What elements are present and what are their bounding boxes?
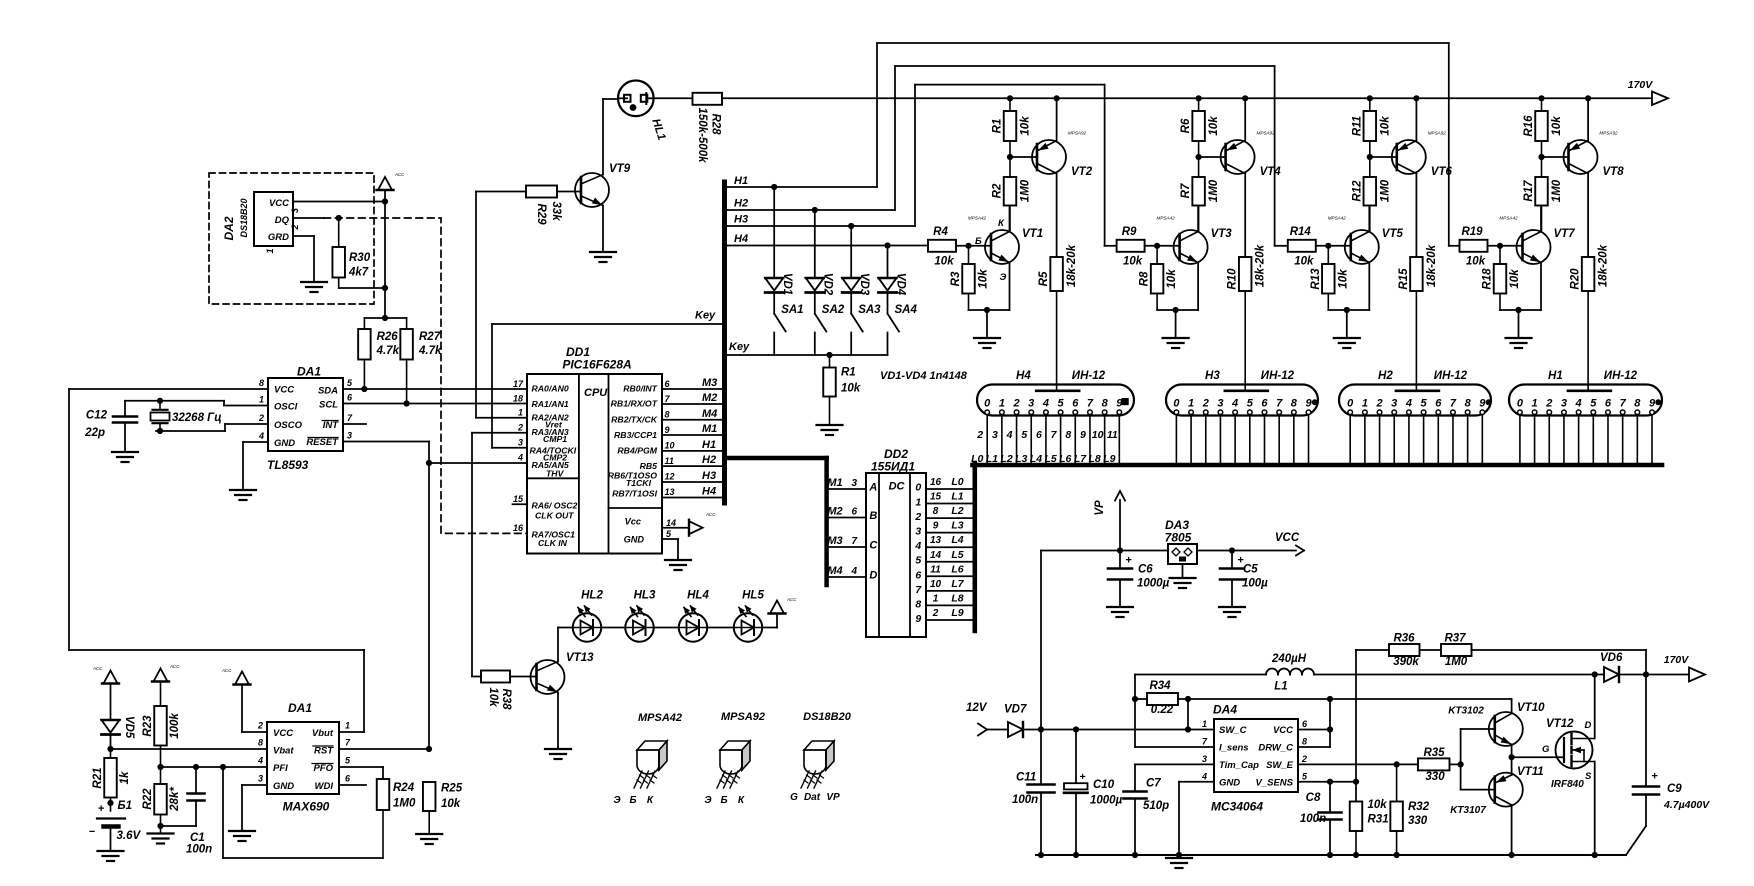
tube H4 cathode net labels L0-L9	[971, 453, 1116, 465]
svg-text:OSCO: OSCO	[274, 420, 303, 431]
svg-text:4.7k: 4.7k	[376, 345, 400, 357]
svg-text:1M0: 1M0	[1379, 179, 1391, 202]
battery-backed VCC rail wire	[69, 389, 364, 732]
junction rail C10	[1073, 852, 1079, 858]
DD1 pin 6 wire M3	[662, 377, 722, 389]
svg-text:+: +	[1125, 555, 1132, 567]
svg-text:2: 2	[976, 429, 983, 441]
svg-text:ACC: ACC	[221, 668, 232, 673]
svg-text:MPSA92: MPSA92	[721, 711, 765, 723]
capacitor C10 1000u electrolytic	[1064, 730, 1123, 856]
resistor R23 100k	[142, 682, 181, 768]
svg-text:18: 18	[513, 394, 523, 404]
svg-text:ИН-12: ИН-12	[1261, 370, 1295, 382]
resistor R9 10k base	[1117, 226, 1180, 268]
junction 12V/C10	[1073, 726, 1079, 732]
junction 170V rail / R11	[1367, 95, 1373, 101]
svg-text:12: 12	[665, 472, 675, 482]
resistor R16 10k	[1523, 98, 1563, 157]
svg-text:H2: H2	[702, 454, 716, 466]
svg-text:R16: R16	[1523, 115, 1535, 137]
nixie tube H2 ИН-12 body	[1339, 370, 1492, 416]
svg-text:4k7: 4k7	[348, 267, 369, 279]
svg-text:14: 14	[666, 518, 676, 528]
svg-text:15: 15	[930, 492, 942, 503]
svg-text:330: 330	[1425, 771, 1445, 783]
Key wire upper to RA4	[492, 309, 722, 447]
svg-text:100µ: 100µ	[1242, 578, 1268, 590]
svg-text:8: 8	[1065, 429, 1071, 441]
svg-text:C7: C7	[1146, 778, 1161, 790]
svg-text:11: 11	[665, 456, 674, 466]
junction emitter ground node	[1344, 307, 1350, 313]
svg-text:8: 8	[915, 599, 921, 611]
svg-text:0: 0	[984, 397, 991, 409]
wire VT12 drain	[1594, 675, 1596, 739]
svg-text:100k: 100k	[169, 713, 181, 739]
svg-text:22p: 22p	[84, 427, 105, 439]
resistor R35 330	[1418, 747, 1461, 783]
wire M4 to DD2 D pin 4	[827, 565, 866, 577]
IC DA1 MAX690 body	[267, 701, 339, 814]
crystal top rail	[125, 400, 224, 402]
svg-text:PFI: PFI	[273, 763, 288, 774]
svg-text:10k: 10k	[1337, 269, 1349, 289]
svg-text:C12: C12	[86, 410, 108, 422]
DD1 pin 9 wire M1	[662, 423, 722, 435]
junction rail VT11 collector	[1509, 852, 1515, 858]
svg-text:5: 5	[1058, 397, 1065, 409]
port bus vertical	[722, 182, 727, 503]
svg-text:1: 1	[259, 395, 264, 405]
svg-text:1000µ: 1000µ	[1090, 795, 1123, 807]
svg-text:8: 8	[933, 506, 939, 517]
svg-text:5: 5	[1421, 397, 1428, 409]
svg-text:ACC: ACC	[786, 597, 797, 602]
svg-text:MPSA92: MPSA92	[1599, 131, 1618, 136]
junction R4/R3	[965, 243, 971, 249]
junction 170V rail / R6	[1196, 95, 1202, 101]
TL8593 pin 4 GND wire	[243, 431, 268, 490]
DD2 output pin 16 wire L0	[926, 476, 973, 489]
svg-text:ACC: ACC	[92, 666, 103, 671]
svg-text:3: 3	[915, 526, 921, 538]
DD2 output pin 2 wire L9	[926, 607, 973, 620]
svg-text:10k: 10k	[1166, 269, 1178, 289]
svg-text:−: −	[89, 826, 96, 838]
tube H1 cathode wires to bus	[1520, 415, 1652, 463]
svg-text:SW_C: SW_C	[1219, 725, 1247, 736]
svg-text:R7: R7	[1180, 183, 1192, 198]
svg-text:Б: Б	[720, 795, 727, 806]
junction rail C7	[1132, 852, 1138, 858]
svg-text:12V: 12V	[966, 702, 988, 714]
svg-text:M2: M2	[827, 506, 842, 518]
DD1 pin 11 wire H2	[662, 454, 722, 466]
svg-text:C10: C10	[1093, 779, 1115, 791]
svg-text:CPU: CPU	[584, 387, 608, 399]
svg-text:R37: R37	[1444, 633, 1466, 645]
svg-text:10k: 10k	[1020, 116, 1032, 136]
junction H3/VD3	[848, 223, 854, 229]
170V anode supply rail	[722, 97, 1652, 99]
junction rail R31	[1353, 852, 1359, 858]
resistor R22 28k	[142, 767, 181, 834]
svg-text:L7: L7	[951, 578, 964, 590]
svg-text:M3: M3	[702, 377, 717, 389]
DD1 pin 8 wire M4	[662, 408, 722, 420]
svg-text:4: 4	[517, 453, 523, 463]
svg-text:100n: 100n	[1012, 794, 1038, 806]
svg-text:Vbut: Vbut	[312, 728, 334, 739]
svg-text:G: G	[1542, 744, 1550, 755]
svg-text:510p: 510p	[1143, 800, 1169, 812]
svg-text:GND: GND	[624, 535, 645, 545]
svg-text:6: 6	[852, 507, 858, 518]
svg-text:A: A	[868, 482, 877, 494]
VCC power symbol at MAX690	[221, 668, 251, 685]
resistor R13 10k	[1310, 246, 1350, 310]
svg-text:3: 3	[258, 774, 263, 784]
svg-text:Vcc: Vcc	[625, 517, 641, 527]
DA2 pin 2 DQ wire	[290, 218, 324, 231]
DD2 output pin 11 wire L6	[926, 563, 973, 576]
nixie tube H1 ИН-12 body	[1509, 370, 1662, 416]
wire VT1 emitter to ground	[969, 309, 1010, 311]
svg-text:2: 2	[1375, 397, 1382, 409]
svg-text:R23: R23	[142, 715, 154, 737]
TL8593 pin 5 SDA wire to DD1 RA0	[343, 378, 527, 389]
svg-text:RB1/RX/OT: RB1/RX/OT	[611, 399, 658, 409]
svg-text:8: 8	[1465, 397, 1472, 409]
resistor R31 10k	[1350, 799, 1389, 855]
H2 net wire from bus	[727, 66, 1288, 246]
svg-text:H4: H4	[734, 233, 748, 245]
svg-text:R30: R30	[349, 252, 371, 264]
svg-text:4: 4	[1006, 429, 1013, 441]
svg-text:10k: 10k	[841, 383, 861, 395]
junction VCC DRW_C feed	[1327, 696, 1333, 747]
svg-text:7: 7	[1276, 397, 1283, 409]
svg-text:DQ: DQ	[275, 215, 290, 226]
transistor VT11 KT3107 pnp	[1450, 757, 1543, 855]
DA4 pin 8 DRW_C wire	[1298, 737, 1330, 748]
svg-text:VCC: VCC	[1273, 725, 1293, 736]
svg-text:VT5: VT5	[1382, 228, 1404, 240]
wire 12V rail to DA4	[1041, 729, 1214, 731]
resistor R20 18k-20k anode	[1570, 244, 1610, 390]
junction V_SENS/R31/R36	[1353, 779, 1359, 785]
resistor R18 10k	[1482, 246, 1522, 310]
svg-text:6: 6	[1605, 397, 1612, 409]
svg-text:3: 3	[1561, 397, 1567, 409]
svg-text:VD1: VD1	[781, 273, 793, 295]
svg-text:9: 9	[1305, 397, 1312, 409]
svg-text:M1: M1	[827, 477, 842, 489]
svg-text:4: 4	[257, 756, 263, 766]
svg-text:390k: 390k	[1393, 656, 1419, 668]
diode VD6	[1595, 652, 1689, 682]
ground at TL8593 GND	[230, 490, 256, 500]
resistor R6 10k	[1180, 98, 1220, 157]
junction R19/R18	[1497, 243, 1503, 249]
svg-text:10k: 10k	[1379, 116, 1391, 136]
resistor R27 4.7k	[400, 318, 442, 404]
svg-text:3: 3	[1217, 397, 1223, 409]
svg-text:DC: DC	[889, 481, 906, 493]
svg-text:HL2: HL2	[581, 590, 603, 602]
svg-text:PIC16F628A: PIC16F628A	[562, 358, 631, 372]
svg-text:Э: Э	[613, 795, 621, 806]
svg-text:VT12: VT12	[1546, 718, 1574, 730]
svg-text:VT3: VT3	[1211, 228, 1233, 240]
TL8593 pin 3 RESET wire	[343, 431, 429, 750]
svg-text:8: 8	[259, 378, 264, 388]
svg-text:L0: L0	[951, 476, 963, 488]
svg-text:RST: RST	[314, 746, 334, 757]
svg-text:2: 2	[1545, 397, 1552, 409]
svg-text:100n: 100n	[186, 844, 212, 856]
svg-text:RB0/INT: RB0/INT	[623, 384, 657, 394]
svg-text:7: 7	[1450, 397, 1457, 409]
svg-text:M4: M4	[827, 565, 842, 577]
svg-text:VT7: VT7	[1554, 228, 1576, 240]
resistor R29 33k	[476, 186, 581, 418]
svg-text:8: 8	[665, 410, 670, 420]
svg-text:+: +	[1651, 771, 1658, 783]
svg-text:IRF840: IRF840	[1551, 779, 1584, 790]
junction rail VT12 source	[1592, 852, 1598, 858]
resistor R24 1M0	[223, 767, 416, 858]
svg-text:VT10: VT10	[1517, 702, 1545, 714]
DD1 pin 18 wire RA1	[513, 394, 523, 404]
svg-text:Б1: Б1	[118, 800, 133, 812]
svg-text:R2: R2	[992, 183, 1004, 198]
junction crystal top	[157, 398, 163, 404]
transistor VT10 KT3102	[1448, 699, 1545, 757]
junction VCC pin	[1327, 726, 1333, 732]
DA4 pin 6 VCC wire	[1298, 719, 1330, 730]
svg-text:7: 7	[1620, 397, 1627, 409]
svg-text:RA1/AN1: RA1/AN1	[532, 399, 569, 409]
svg-text:0: 0	[1173, 397, 1180, 409]
svg-text:VCC: VCC	[274, 385, 294, 396]
svg-text:M1: M1	[702, 423, 717, 435]
svg-text:PFO: PFO	[313, 763, 333, 774]
svg-text:RA0/AN0: RA0/AN0	[532, 384, 569, 394]
svg-text:ИН-12: ИН-12	[1604, 370, 1638, 382]
package drawing DS18B20	[790, 711, 852, 803]
svg-text:SA3: SA3	[858, 304, 881, 316]
junction crystal bottom	[157, 428, 163, 434]
tube H4 pin number labels	[976, 429, 1118, 441]
svg-text:+: +	[98, 803, 105, 815]
svg-text:10: 10	[665, 441, 675, 451]
resistor R25 10k	[423, 782, 463, 834]
VCC power symbol at HL5	[769, 597, 798, 628]
svg-text:8: 8	[258, 738, 263, 748]
svg-text:THV: THV	[546, 468, 565, 478]
svg-text:5: 5	[1021, 429, 1027, 441]
transistor VT5 MPSA42 npn	[1328, 206, 1404, 311]
MOSFET VT12 IRF840	[1542, 718, 1595, 790]
svg-text:GRD: GRD	[268, 232, 289, 243]
tube H2 cathode wires to bus	[1350, 415, 1482, 463]
svg-text:H3: H3	[1205, 370, 1220, 382]
junction R34 left / I_sens / L1	[1132, 675, 1138, 748]
ground at R22	[148, 834, 174, 844]
capacitor C1 100n	[161, 767, 213, 856]
resistor R8 10k	[1139, 246, 1179, 310]
svg-text:3: 3	[852, 478, 858, 489]
MAX690 pin 1 Vbut wire	[339, 721, 364, 733]
svg-text:H1: H1	[1548, 370, 1563, 382]
svg-text:D: D	[1585, 720, 1592, 731]
junction R30/VCC net	[382, 285, 388, 291]
svg-text:HL5: HL5	[742, 590, 764, 602]
svg-text:4: 4	[1042, 397, 1049, 409]
ground at C6	[1107, 607, 1133, 617]
transistor VT13	[531, 628, 595, 750]
svg-text:4: 4	[1201, 772, 1207, 782]
svg-text:VT1: VT1	[1022, 228, 1043, 240]
svg-text:R26: R26	[377, 331, 399, 343]
svg-text:VD1-VD4 1n4148: VD1-VD4 1n4148	[880, 370, 968, 382]
svg-text:SW_E: SW_E	[1266, 760, 1294, 771]
junction R9/R8	[1154, 243, 1160, 249]
svg-text:TL8593: TL8593	[267, 458, 309, 472]
wire VT7 emitter to ground	[1500, 309, 1541, 311]
svg-text:8: 8	[1102, 397, 1109, 409]
svg-text:SA1: SA1	[781, 304, 803, 316]
svg-text:2: 2	[257, 721, 263, 731]
svg-text:H3: H3	[702, 470, 716, 482]
svg-text:R4: R4	[933, 226, 948, 238]
svg-text:M4: M4	[702, 408, 717, 420]
svg-text:GND: GND	[274, 438, 295, 449]
wire VT12 source to rail	[1594, 762, 1596, 856]
svg-text:R5: R5	[1038, 271, 1050, 286]
MAX690 pin 3 GND wire	[242, 774, 267, 832]
svg-text:C5: C5	[1243, 564, 1258, 576]
resistor R19 10k base	[1460, 226, 1523, 268]
MAX690 pin 4 PFI wire	[161, 756, 268, 768]
svg-text:C11: C11	[1016, 772, 1036, 784]
svg-text:M2: M2	[702, 392, 717, 404]
DD1 pin 1 wire RA2 from R29	[476, 408, 527, 418]
svg-text:H4: H4	[1016, 370, 1031, 382]
resistor R21 1k	[92, 749, 131, 811]
ground at VT13	[545, 749, 571, 759]
junction V_SENS/C8	[1327, 779, 1333, 785]
svg-text:4: 4	[1231, 397, 1238, 409]
svg-text:R29: R29	[535, 203, 547, 225]
svg-text:R28: R28	[710, 113, 722, 135]
MAX690 pin 6 WDI stub	[339, 774, 366, 786]
svg-text:MAX690: MAX690	[283, 800, 330, 814]
resistor R36 390k	[1356, 633, 1420, 669]
svg-text:9: 9	[915, 613, 921, 625]
svg-text:4: 4	[1405, 397, 1412, 409]
junction R23/PFI	[157, 764, 163, 770]
label VD1-VD4 1n4148	[880, 370, 968, 382]
MAX690 pin 5 PFO wire	[339, 756, 383, 780]
svg-text:DRW_C: DRW_C	[1258, 743, 1293, 754]
DD2 output pin 1 wire L8	[926, 592, 973, 605]
svg-text:VD3: VD3	[858, 273, 870, 296]
svg-text:3.6V: 3.6V	[117, 830, 142, 842]
wire driver base bracket	[1461, 729, 1495, 790]
junction RST/R25	[426, 746, 432, 752]
svg-text:0: 0	[1347, 397, 1354, 409]
junction VCC/DA2 pin3	[382, 198, 388, 204]
svg-text:10k: 10k	[1551, 116, 1563, 136]
svg-text:RB4/PGM: RB4/PGM	[617, 446, 657, 456]
svg-text:8: 8	[1302, 737, 1307, 747]
transistor VT7 MPSA42 npn	[1499, 206, 1575, 311]
junction Vbat node	[107, 746, 113, 752]
svg-text:VD2: VD2	[822, 273, 834, 296]
ground at C12	[112, 452, 138, 462]
switch SA2	[815, 293, 845, 356]
svg-text:7805: 7805	[1165, 531, 1192, 545]
transistor VT8 MPSA92 pnp	[1564, 98, 1625, 257]
svg-text:MPSA42: MPSA42	[1499, 216, 1518, 221]
svg-text:10: 10	[930, 579, 942, 590]
svg-text:ИН-12: ИН-12	[1072, 370, 1106, 382]
labels K B E on VT1	[975, 218, 1007, 283]
junction C1/PFI	[193, 764, 199, 770]
resistor R15 18k-20k anode	[1398, 244, 1438, 390]
svg-text:11: 11	[930, 564, 941, 575]
svg-text:3: 3	[1202, 754, 1207, 764]
svg-text:1M0: 1M0	[1445, 656, 1468, 668]
svg-text:33k: 33k	[550, 201, 562, 221]
svg-text:4: 4	[914, 540, 921, 552]
svg-text:ACC: ACC	[169, 664, 180, 669]
svg-text:13: 13	[665, 487, 675, 497]
DA4 pin 3 Tim_Cap wire	[1135, 754, 1214, 764]
svg-text:1M0: 1M0	[1020, 179, 1032, 202]
wire VT6 base	[1370, 156, 1397, 158]
svg-text:9: 9	[1080, 429, 1086, 441]
svg-text:9: 9	[933, 521, 939, 532]
svg-text:R38: R38	[500, 688, 512, 710]
svg-text:15: 15	[513, 494, 524, 504]
svg-text:VP: VP	[1094, 500, 1106, 516]
svg-text:H3: H3	[734, 214, 748, 226]
capacitor C5 100u	[1220, 551, 1268, 608]
LED HL2	[573, 590, 604, 642]
svg-text:R22: R22	[142, 788, 154, 810]
junction H2/VD2	[812, 207, 818, 213]
transistor VT6 MPSA92 pnp	[1392, 98, 1453, 257]
wire HL1 to VT9 collector	[603, 98, 618, 100]
DD1 pin 17 wire RA0	[513, 379, 524, 389]
junction VCC / pull-up tee	[382, 315, 388, 321]
svg-text:3: 3	[1391, 397, 1397, 409]
svg-text:L9: L9	[951, 607, 963, 619]
svg-text:1M0: 1M0	[1208, 179, 1220, 202]
svg-text:1: 1	[915, 496, 921, 508]
junction 170V rail / R16	[1538, 95, 1544, 101]
MAX690 pin 2 VCC wire	[242, 685, 267, 733]
svg-text:13: 13	[930, 535, 942, 546]
svg-text:SA2: SA2	[822, 304, 845, 316]
wire VP branch vertical	[1040, 551, 1042, 730]
resistor R10 18k-20k anode	[1227, 244, 1267, 390]
svg-text:10k: 10k	[1466, 256, 1486, 268]
